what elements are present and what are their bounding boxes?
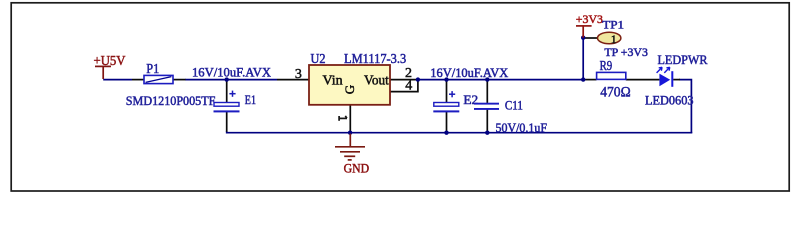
svg-text:16V/10uF.AVX: 16V/10uF.AVX — [192, 65, 271, 79]
svg-text:Vout: Vout — [364, 74, 389, 89]
svg-text:4: 4 — [405, 79, 412, 94]
svg-text:U2: U2 — [311, 51, 326, 66]
svg-text:+3V3: +3V3 — [576, 12, 603, 26]
svg-text:SMD1210P005TF: SMD1210P005TF — [126, 94, 216, 108]
svg-text:P1: P1 — [146, 62, 159, 77]
svg-text:GND: GND — [344, 161, 370, 175]
svg-text:470Ω: 470Ω — [600, 85, 631, 101]
svg-text:LEDPWR: LEDPWR — [658, 53, 709, 67]
svg-text:E2: E2 — [463, 93, 478, 107]
svg-text:R9: R9 — [600, 59, 613, 74]
svg-text:G: G — [342, 85, 357, 94]
svg-text:E1: E1 — [245, 93, 256, 107]
svg-text:+U5V: +U5V — [94, 53, 126, 68]
svg-text:16V/10uF.AVX: 16V/10uF.AVX — [430, 66, 508, 80]
svg-text:1: 1 — [611, 32, 617, 46]
svg-text:TP +3V3: TP +3V3 — [604, 47, 648, 59]
svg-text:C11: C11 — [505, 98, 523, 112]
svg-text:3: 3 — [295, 67, 302, 82]
svg-text:LED0603: LED0603 — [645, 94, 694, 108]
svg-text:Vin: Vin — [323, 74, 343, 89]
svg-text:LM1117-3.3: LM1117-3.3 — [344, 51, 406, 66]
svg-text:TP1: TP1 — [602, 20, 624, 32]
svg-text:50V/0.1uF: 50V/0.1uF — [496, 121, 548, 135]
